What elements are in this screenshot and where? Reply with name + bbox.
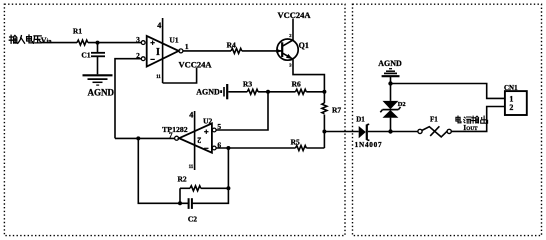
ground AGND at C1: [83, 75, 115, 97]
resistor R5: [291, 137, 307, 150]
wire AGND node to CN1 pin1: [391, 84, 505, 99]
svg-text:R3: R3: [243, 79, 252, 88]
junction node R2 left: [178, 201, 182, 205]
svg-text:R6: R6: [292, 79, 301, 88]
wire Vin to R1: [41, 42, 77, 44]
pin 4 label U2: [189, 111, 193, 120]
wire U1 output to R4: [183, 50, 231, 52]
power VCC24A at U1: [178, 59, 212, 69]
pin 11 label U1: [156, 75, 161, 80]
svg-text:Q1: Q1: [299, 41, 309, 50]
junction node D2: [388, 129, 392, 133]
label 输入电压 (input voltage): [9, 35, 41, 43]
op-amp U1: [141, 36, 183, 67]
junction node R7-D1: [322, 130, 326, 134]
junction node input: [96, 41, 100, 45]
resistor R1: [73, 26, 88, 45]
wire R7 node down to R5: [323, 132, 325, 149]
capacitor C1: [81, 43, 105, 75]
wire R1 to U1 pin 3: [88, 42, 141, 44]
feedback loop right vertical wire: [192, 148, 229, 203]
ground AGND at D2 (inverted): [378, 59, 402, 76]
svg-text:CN1: CN1: [504, 84, 518, 92]
U2 power pin vertical wire: [194, 111, 196, 170]
svg-text:R2: R2: [178, 174, 187, 183]
connector CN1: [504, 84, 527, 115]
diode D1 1N4007: [355, 116, 383, 150]
wire U2 output to feedback node: [115, 137, 175, 139]
junction node AGND-CN1: [388, 81, 392, 85]
pin 11 label U2: [189, 165, 194, 170]
power VCC24A at Q1: [277, 10, 311, 20]
wire R6 to emitter node: [306, 91, 324, 93]
label Vin: [41, 36, 52, 45]
wire R4 to Q1 base: [242, 50, 282, 52]
wire U2 pin6 to R5: [216, 147, 295, 149]
svg-text:11: 11: [189, 165, 194, 170]
transistor Q1: [276, 33, 309, 68]
pin 7 label: [169, 130, 173, 139]
svg-text:R1: R1: [73, 26, 82, 35]
svg-text:U2: U2: [203, 116, 212, 125]
dashed enclosure box left: [4, 4, 345, 235]
wire Q1 collector to VCC: [292, 19, 294, 41]
svg-text:AGND: AGND: [378, 59, 402, 68]
svg-text:OUT: OUT: [466, 126, 478, 132]
svg-text:4: 4: [157, 21, 161, 30]
svg-text:VCC24A: VCC24A: [277, 10, 311, 20]
pin 6 label: [217, 140, 221, 149]
svg-text:F1: F1: [430, 116, 438, 124]
capacitor C2: [188, 198, 197, 223]
wire R7 node to D1: [324, 131, 358, 133]
pin 1 label: [185, 42, 189, 51]
wire D1 to F1: [368, 131, 418, 133]
resistor R7: [322, 92, 342, 132]
svg-text:VCC24A: VCC24A: [178, 59, 212, 69]
svg-text:TP1282: TP1282: [162, 125, 188, 134]
svg-text:D1: D1: [356, 116, 365, 124]
pin 4 label U1: [157, 21, 161, 30]
wire R5 to R7 node: [306, 147, 324, 149]
svg-text:1N4007: 1N4007: [355, 141, 383, 149]
wire Q1 emitter to R6 node: [293, 59, 324, 92]
svg-text:U1: U1: [169, 36, 178, 45]
power port AGND at R3: [196, 84, 227, 99]
junction node pin6 feedback: [226, 146, 230, 150]
svg-text:R4: R4: [227, 40, 236, 49]
svg-text:1: 1: [185, 42, 189, 51]
pin 3 label: [136, 35, 140, 44]
wire F1 to CN1 pin2: [451, 107, 505, 132]
label 电流输出 (current output): [456, 116, 488, 123]
svg-text:4: 4: [189, 111, 193, 120]
svg-text:AGND: AGND: [88, 88, 115, 98]
U1 power pin vertical wire: [162, 18, 164, 83]
wire U2 pin5 to R3-R6 node: [216, 92, 268, 130]
resistor R4: [227, 40, 242, 53]
label IOUT: [463, 123, 478, 132]
svg-text:R7: R7: [332, 106, 341, 115]
resistor R3: [243, 79, 258, 94]
junction node U2 output feedback: [136, 136, 140, 140]
wire R3 to R6: [258, 91, 295, 93]
svg-text:2: 2: [197, 136, 201, 145]
op-amp U2: [162, 116, 216, 152]
svg-text:C1: C1: [81, 50, 90, 59]
pin 2 label: [136, 51, 140, 60]
pin 5 label: [217, 122, 221, 131]
svg-text:3: 3: [136, 35, 140, 44]
svg-text:11: 11: [156, 75, 161, 80]
TVS diode D2: [380, 77, 405, 132]
junction node R3-R6: [266, 90, 270, 94]
feedback loop left vertical wire: [138, 138, 188, 203]
resistor R6: [292, 79, 307, 94]
wire U1 pin2 feedback: [115, 59, 141, 139]
svg-text:C2: C2: [188, 215, 197, 224]
svg-text:R5: R5: [291, 137, 300, 146]
svg-text:AGND: AGND: [196, 88, 220, 97]
dashed enclosure box right: [353, 4, 542, 235]
U1 bottom supply wire: [163, 68, 197, 84]
svg-text:I: I: [156, 47, 160, 58]
wire AGND to R3: [228, 91, 247, 93]
svg-text:2: 2: [509, 103, 513, 112]
resistor R2: [178, 174, 229, 203]
svg-text:D2: D2: [398, 101, 406, 108]
fuse F1: [418, 116, 451, 137]
junction node R2 right: [226, 186, 230, 190]
junction node emitter-R6-R7: [322, 90, 326, 94]
svg-text:1: 1: [509, 94, 513, 103]
